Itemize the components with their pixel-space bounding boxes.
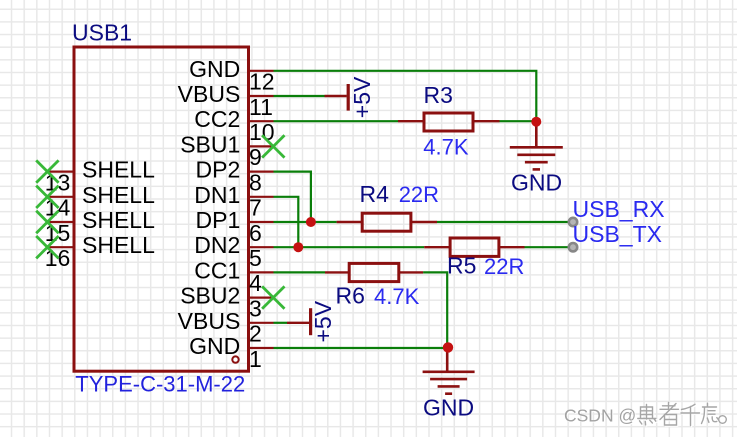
wire pin12 to CC2 junction — [274, 71, 537, 121]
svg-text:TYPE-C-31-M-22: TYPE-C-31-M-22 — [75, 372, 245, 397]
pin numbers — [45, 69, 275, 372]
junction CC2/GND — [531, 117, 541, 127]
watermark hanzi 者 — [660, 403, 679, 426]
pin 14 SHELL — [47, 196, 72, 198]
svg-text:SBU2: SBU2 — [180, 283, 240, 309]
wire R3 to junction — [500, 120, 537, 122]
svg-text:GND: GND — [423, 395, 474, 421]
svg-text:4: 4 — [249, 270, 262, 296]
ground symbol bottom (pin1) — [423, 348, 475, 394]
wire R5 to USB_TX — [525, 246, 572, 248]
svg-text:4.7K: 4.7K — [374, 284, 420, 309]
wire DP1 to R4 — [274, 221, 337, 223]
wire pin8 DP2 down — [274, 172, 311, 222]
pin 5 DN2 — [249, 246, 274, 248]
watermark hanzi 愚 — [638, 403, 728, 427]
svg-text:DN1: DN1 — [194, 182, 240, 208]
no-connect X pin9 — [262, 135, 284, 157]
svg-text:2: 2 — [249, 321, 262, 347]
pin 11 VBUS — [249, 95, 274, 97]
pin 4 CC1 — [249, 271, 274, 273]
svg-text:10: 10 — [249, 119, 275, 145]
svg-text:SHELL: SHELL — [82, 182, 155, 208]
svg-text:GND: GND — [511, 170, 562, 196]
watermark hanzi 虑 — [702, 403, 719, 423]
svg-text:SHELL: SHELL — [82, 207, 155, 233]
svg-text:22R: 22R — [484, 254, 524, 279]
pin names — [82, 56, 240, 359]
wire pin11 to +5V — [274, 95, 325, 97]
no-connect X pin13 — [36, 160, 58, 182]
no-connect X pin15 — [36, 211, 58, 233]
pin 2 VBUS — [249, 322, 274, 324]
svg-text:11: 11 — [249, 94, 273, 120]
svg-text:SBU1: SBU1 — [180, 131, 240, 157]
junction DN1/DN2 — [293, 242, 303, 252]
pin 15 SHELL — [47, 221, 72, 223]
pin 7 DN1 — [249, 196, 274, 198]
svg-text:5: 5 — [249, 245, 262, 271]
wire pin1 GND to junction — [274, 347, 448, 349]
svg-text:DP1: DP1 — [196, 207, 241, 233]
no-connect X pin16 — [36, 236, 58, 258]
svg-text:USB_RX: USB_RX — [573, 196, 665, 222]
wire pin2 to +5V — [274, 322, 288, 324]
resistor R4 — [337, 213, 437, 231]
wire CC1 to R6 — [274, 271, 326, 273]
svg-text:R4: R4 — [360, 181, 390, 207]
svg-text:DN2: DN2 — [194, 232, 240, 258]
wire R6 to GND junction — [423, 272, 447, 348]
svg-text:DP2: DP2 — [196, 157, 241, 183]
pin 8 DP2 — [249, 171, 274, 173]
svg-text:22R: 22R — [399, 182, 439, 207]
svg-text:R6: R6 — [336, 283, 365, 309]
svg-text:9: 9 — [249, 144, 262, 170]
power +5V top bar — [325, 84, 349, 111]
pin 10 CC2 — [249, 120, 274, 122]
svg-text:SHELL: SHELL — [82, 232, 155, 258]
svg-text:GND: GND — [189, 333, 240, 359]
svg-text:3: 3 — [249, 295, 262, 321]
svg-text:8: 8 — [249, 169, 262, 195]
svg-text:GND: GND — [189, 56, 240, 82]
svg-text:SHELL: SHELL — [82, 157, 155, 183]
svg-text:7: 7 — [249, 195, 262, 221]
pin 13 SHELL — [47, 171, 72, 173]
pin 3 SBU2 — [249, 297, 274, 299]
connector USB1 body — [74, 47, 249, 371]
junction DP2/DP1 — [306, 217, 316, 227]
pin 9 SBU1 — [249, 145, 274, 147]
net endpoint USB_RX — [569, 218, 577, 226]
svg-text:+5V: +5V — [349, 76, 375, 118]
resistor R5 — [424, 238, 524, 256]
svg-text:USB1: USB1 — [72, 20, 132, 46]
svg-text:1: 1 — [249, 346, 262, 372]
no-connect X pin14 — [36, 186, 58, 208]
watermark full stop — [719, 416, 727, 424]
resistor R6 — [325, 263, 423, 281]
pin1 indicator circle — [232, 356, 238, 362]
wire DN2 to R5 — [274, 246, 425, 248]
svg-text:R3: R3 — [424, 82, 453, 108]
power +5V bottom bar — [287, 308, 311, 335]
pin 12 GND — [249, 70, 274, 72]
svg-text:USB_TX: USB_TX — [573, 221, 662, 247]
pin 1 GND — [249, 347, 274, 349]
svg-text:CC2: CC2 — [194, 106, 240, 132]
svg-text:CSDN @: CSDN @ — [564, 406, 636, 426]
svg-text:VBUS: VBUS — [178, 308, 241, 334]
watermark hanzi 千 — [681, 404, 700, 425]
svg-text:12: 12 — [249, 69, 275, 95]
net endpoint USB_TX — [569, 243, 577, 251]
no-connect X pin3 — [262, 286, 284, 308]
ground symbol top (CC2/R3) — [510, 121, 563, 169]
svg-text:6: 6 — [249, 220, 262, 246]
wire CC2 to R3 — [274, 120, 399, 122]
wire pin7 DN1 down — [274, 197, 299, 247]
svg-text:CC1: CC1 — [194, 257, 240, 283]
wire R4 to USB_RX — [437, 221, 571, 223]
pin 16 SHELL — [47, 246, 72, 248]
svg-text:4.7K: 4.7K — [423, 134, 469, 159]
pin 6 DP1 — [249, 221, 274, 223]
svg-text:+5V: +5V — [310, 300, 336, 342]
junction GND bottom — [443, 342, 453, 352]
svg-text:VBUS: VBUS — [178, 81, 241, 107]
svg-text:R5: R5 — [447, 253, 476, 279]
resistor R3 — [398, 113, 500, 131]
